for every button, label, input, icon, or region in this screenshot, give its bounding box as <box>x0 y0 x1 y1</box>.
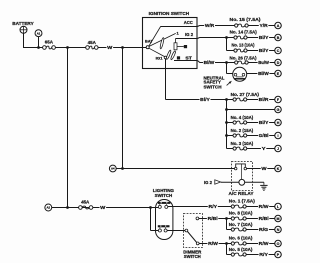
svg-text:O: O <box>277 242 280 246</box>
svg-text:Bl/Y: Bl/Y <box>259 48 269 53</box>
fuse No.5 row P <box>227 247 282 258</box>
lighting switch label <box>153 188 175 198</box>
svg-text:45A: 45A <box>81 199 89 204</box>
wire A/C relay feed <box>116 168 236 170</box>
ignition IG2 terminal bar <box>174 39 177 50</box>
wire row G <box>227 109 275 111</box>
wire bus F-J <box>226 100 228 149</box>
label IG 2 feed <box>204 180 213 185</box>
label Bl/W ST <box>203 60 215 66</box>
svg-text:A: A <box>277 24 280 28</box>
node junction I <box>225 134 228 137</box>
ignition rotor arc 3 <box>170 50 176 60</box>
wire main feed to ignition box <box>98 47 143 49</box>
lighting switch bottom terminals <box>158 227 167 232</box>
svg-text:J: J <box>277 147 279 151</box>
battery B1 positive terminal <box>20 26 27 33</box>
node junction IG1 bus <box>225 98 228 101</box>
svg-text:SWITCH: SWITCH <box>155 193 173 198</box>
wire lighting feed into switch <box>151 207 159 209</box>
wire battery stem <box>23 33 25 47</box>
node junction H <box>225 121 228 124</box>
connector G <box>275 106 282 113</box>
svg-text:G: G <box>277 108 280 112</box>
node junction IG2 bus <box>225 36 228 39</box>
svg-text:C: C <box>277 49 280 53</box>
label W main wire <box>107 45 114 51</box>
ignition contact 1 arm <box>149 33 176 46</box>
wire NSS output <box>247 73 275 75</box>
battery label <box>12 21 33 26</box>
fuse No.1 row L <box>229 198 281 209</box>
lighting switch top contact bar <box>158 202 170 204</box>
svg-text:No. 14 (7.5A): No. 14 (7.5A) <box>230 30 258 35</box>
node junction left vertical <box>66 46 69 49</box>
wire coil to ground <box>245 182 264 185</box>
A/C relay coil <box>239 179 245 185</box>
fuse No.8 row M <box>229 210 281 221</box>
connector A2 <box>45 204 52 211</box>
svg-text:Bl/Y: Bl/Y <box>259 120 269 125</box>
fuse 45A lighting <box>79 199 93 209</box>
svg-text:M: M <box>277 217 280 221</box>
wire IG2 output <box>176 38 235 39</box>
fuse No.6 row O <box>229 235 281 246</box>
wire fuse13 stub <box>227 50 235 52</box>
wire lighting top output <box>168 206 233 208</box>
svg-text:Y/R: Y/R <box>260 23 269 28</box>
wire BAT feed into box <box>142 47 146 49</box>
fuse 45A main <box>86 40 98 49</box>
A/C relay box <box>232 162 253 191</box>
label W/R <box>204 23 215 29</box>
label W relay <box>261 166 268 172</box>
fuse No.2 row I <box>227 128 282 139</box>
wire main feed left <box>23 47 43 49</box>
fuse No.15 row A <box>230 17 282 29</box>
svg-text:D: D <box>277 61 280 65</box>
svg-text:ST: ST <box>185 56 192 61</box>
fuse No.13 row C <box>232 43 282 54</box>
dimmer switch box <box>184 214 203 248</box>
wire IG1 to bus <box>166 99 235 101</box>
svg-text:SWITCH: SWITCH <box>184 254 201 259</box>
wire lighting bottom output <box>167 230 185 232</box>
A/C relay label <box>229 191 254 196</box>
connector K <box>275 165 282 172</box>
ignition contact II pad <box>184 45 187 48</box>
svg-text:ACC: ACC <box>184 20 194 25</box>
IG2 source arrow <box>215 180 221 184</box>
wire IG2 to coil <box>221 181 239 183</box>
svg-text:A2: A2 <box>47 206 51 210</box>
dimmer pivot terminal <box>185 229 188 232</box>
dimmer lever <box>188 232 197 243</box>
wire right vertical bus <box>122 48 124 169</box>
svg-text:R/G: R/G <box>259 227 269 232</box>
neutral safety switch label <box>204 75 225 89</box>
svg-text:R/Bl: R/Bl <box>259 216 269 221</box>
connector A4 <box>109 165 116 172</box>
svg-text:G/Bl: G/Bl <box>259 133 269 138</box>
fuse No.4 row H <box>227 115 282 126</box>
label IG 2 <box>185 32 194 37</box>
wire ST output <box>198 61 235 63</box>
label W lighting wire <box>100 205 107 211</box>
svg-text:No. 7 (10A): No. 7 (10A) <box>229 222 253 227</box>
svg-text:R/W: R/W <box>208 241 219 246</box>
A/C relay contact terminals <box>234 167 246 170</box>
wire bus O-P <box>226 244 228 255</box>
wire ACC to fuse 15 <box>198 26 235 27</box>
svg-text:Bl/Y: Bl/Y <box>200 97 210 102</box>
ignition rotor arc 2 <box>166 50 172 60</box>
svg-text:I: I <box>278 134 279 138</box>
wire left vertical bus <box>67 48 69 208</box>
label 1 <box>176 31 179 36</box>
svg-text:R/Y: R/Y <box>209 204 218 209</box>
node junction A/C feed <box>121 167 124 170</box>
svg-text:No. 4 (10A): No. 4 (10A) <box>231 115 254 120</box>
svg-text:R/W: R/W <box>259 241 270 246</box>
label Bl/W NSS <box>257 71 269 77</box>
label Bl/Y IG1 <box>200 97 211 103</box>
node junction ST bus <box>225 61 228 64</box>
fuse 65A <box>43 40 56 50</box>
node junction O bus <box>225 242 228 245</box>
node junction A1/main <box>37 46 40 49</box>
svg-text:A4: A4 <box>111 167 115 171</box>
svg-text:IG 2: IG 2 <box>204 180 213 185</box>
label R/Y lighting <box>208 204 218 210</box>
fuse No.14 row B <box>230 30 282 41</box>
svg-text:Y: Y <box>262 146 266 151</box>
fuse No.27 row F <box>231 92 282 103</box>
svg-text:B: B <box>277 36 280 40</box>
ignition switch title <box>149 11 190 16</box>
svg-text:No. 26 (7.5A): No. 26 (7.5A) <box>230 55 258 60</box>
ground G1 <box>260 185 267 190</box>
lighting switch top terminals <box>158 204 168 209</box>
svg-text:W/R: W/R <box>205 23 215 28</box>
node junction M bus <box>225 217 228 220</box>
svg-text:No. 27 (7.5A): No. 27 (7.5A) <box>231 92 260 97</box>
svg-text:Bl/W: Bl/W <box>204 60 216 65</box>
wire ST inside box <box>174 60 198 62</box>
svg-text:No. 2 (15A): No. 2 (15A) <box>231 128 254 133</box>
node junction lighting feed <box>66 206 69 209</box>
dimmer high terminal <box>196 217 199 220</box>
svg-text:No. 8 (10A): No. 8 (10A) <box>229 210 253 215</box>
A/C relay contact bridge <box>236 164 246 167</box>
wire relay output <box>247 168 275 170</box>
fuse No.7 row N <box>227 222 282 233</box>
svg-text:BATTERY: BATTERY <box>12 21 33 26</box>
lighting switch bottom contact bar <box>158 225 170 227</box>
node junction lighting switch split <box>149 206 152 209</box>
ignition switch box <box>143 18 198 69</box>
A/C relay plunger link <box>240 164 242 180</box>
label R/Bl dimmer <box>207 216 218 222</box>
svg-text:IG1: IG1 <box>156 55 164 60</box>
ignition contact ST pad <box>177 56 180 59</box>
svg-text:R/Bl: R/Bl <box>208 216 218 221</box>
svg-text:H: H <box>277 121 280 125</box>
ignition contact IG1 arm <box>149 48 165 56</box>
svg-text:No. 1 (7.5A): No. 1 (7.5A) <box>229 198 256 203</box>
svg-text:IG 2: IG 2 <box>185 32 194 37</box>
svg-text:IGNITION SWITCH: IGNITION SWITCH <box>149 11 190 16</box>
wire bus M-N <box>226 219 228 230</box>
svg-text:Bl/Y: Bl/Y <box>259 35 269 40</box>
svg-text:N: N <box>277 228 280 232</box>
node junction G <box>225 108 228 111</box>
ignition IG1 terminal <box>164 56 167 59</box>
wire IG1 down <box>165 59 167 100</box>
svg-text:65A: 65A <box>45 40 53 45</box>
wire bus to neutral safety switch <box>227 63 234 74</box>
svg-text:No. 15 (7.5A): No. 15 (7.5A) <box>230 17 262 22</box>
dimmer switch label <box>183 249 202 259</box>
wire main feed mid <box>55 47 86 49</box>
svg-text:Bl/W: Bl/W <box>258 71 270 76</box>
svg-text:No. 3 (10A): No. 3 (10A) <box>231 141 254 146</box>
wire A1 stem <box>38 37 40 48</box>
svg-text:No. 13 (10A): No. 13 (10A) <box>232 43 255 48</box>
wire ACC line <box>161 26 198 28</box>
svg-text:A/C RELAY: A/C RELAY <box>229 191 254 196</box>
wire lighting feed left <box>52 207 151 209</box>
svg-text:45A: 45A <box>88 40 96 45</box>
label R/W dimmer <box>207 241 219 247</box>
svg-text:Bu/W: Bu/W <box>258 60 270 65</box>
label ACC <box>184 20 194 25</box>
svg-text:No. 5 (10A): No. 5 (10A) <box>229 247 253 252</box>
label IG1 <box>156 55 164 60</box>
wire lighting branch down <box>151 208 159 231</box>
svg-text:SWITCH: SWITCH <box>204 84 222 89</box>
wire dimmer low output <box>199 243 233 245</box>
ignition contact II link <box>177 46 184 48</box>
svg-text:K: K <box>277 167 280 171</box>
label ST <box>185 56 192 61</box>
wire bus fuse14-fuse13 <box>226 38 228 51</box>
svg-text:No. 6 (10A): No. 6 (10A) <box>229 235 253 240</box>
fuse No.26 row D <box>230 55 282 65</box>
connector E <box>275 70 282 77</box>
fuse No.3 row J <box>227 141 282 152</box>
ignition rotor arc 1 <box>160 37 165 49</box>
NSS pointer arrow <box>227 81 232 86</box>
node junction right vertical <box>121 46 124 49</box>
dimmer low terminal <box>196 242 199 245</box>
lighting switch body <box>156 200 173 240</box>
svg-text:Bl/R: Bl/R <box>259 97 270 102</box>
svg-text:R/W: R/W <box>259 204 270 209</box>
neutral safety switch <box>233 67 247 81</box>
svg-text:A1: A1 <box>37 31 41 35</box>
label BAT <box>145 38 154 43</box>
wire dimmer high output <box>199 218 233 220</box>
svg-text:R/Y: R/Y <box>259 252 268 257</box>
connector A1 <box>35 30 42 37</box>
ignition pivot terminal <box>146 46 149 49</box>
ignition contact ACC arm <box>149 27 161 47</box>
